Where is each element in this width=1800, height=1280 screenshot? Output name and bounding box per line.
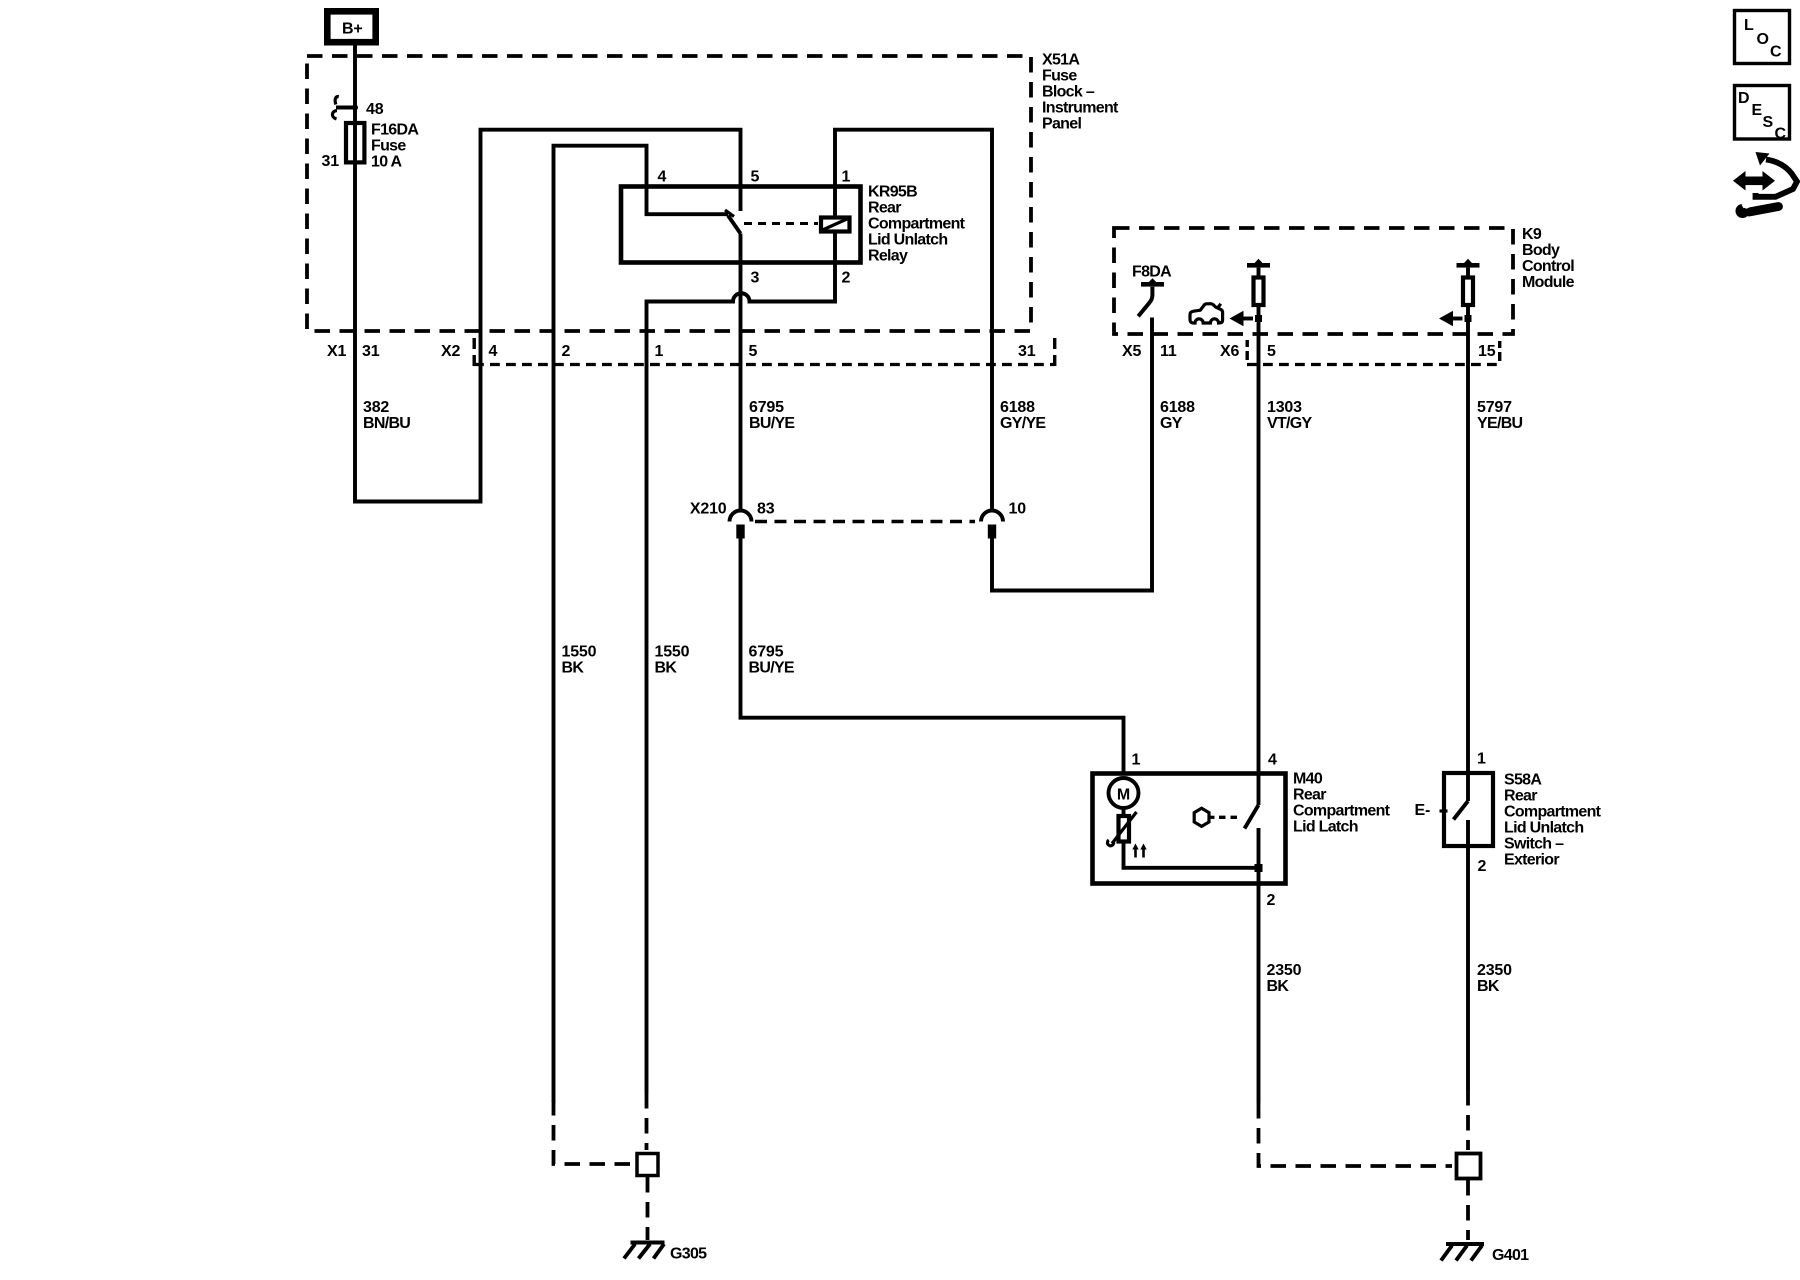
motor M [1109,778,1139,814]
svg-text:Lid Latch: Lid Latch [1293,819,1358,836]
svg-text:X5: X5 [1122,343,1141,360]
svg-text:Panel: Panel [1042,116,1081,133]
M40 pin labels [1132,752,1278,910]
svg-text:Block –: Block – [1042,84,1095,101]
dashed lead 1550 BK left to G305 [554,1100,637,1164]
svg-text:GY/YE: GY/YE [1000,415,1046,432]
ground symbol G401 [1441,1244,1529,1264]
svg-text:Lid Unlatch: Lid Unlatch [868,232,947,249]
svg-text:6795: 6795 [749,644,784,661]
svg-text:G305: G305 [670,1246,707,1263]
svg-text:M: M [1117,786,1130,803]
svg-text:Control: Control [1522,258,1574,275]
svg-text:1: 1 [1132,752,1141,769]
svg-text:B+: B+ [342,21,363,38]
car icon [1190,304,1223,323]
svg-text:2: 2 [1478,858,1487,875]
DESC box [1735,86,1790,143]
fuse block X51A box [307,56,1031,331]
svg-text:BU/YE: BU/YE [749,660,795,677]
relay KR95B [621,184,966,265]
S58A pin labels [1477,751,1487,876]
svg-text:1303: 1303 [1267,399,1302,416]
svg-text:X2: X2 [441,343,460,360]
wire label 5797 YE/BU [1477,399,1523,432]
svg-text:BK: BK [655,660,678,677]
BCM driver output left (X6/5) [1230,259,1271,326]
wire label 1550 BK left [562,644,597,677]
ground splice box G401 [1457,1154,1481,1179]
svg-text:C: C [1770,44,1782,61]
svg-text:1550: 1550 [562,644,597,661]
svg-text:X51A: X51A [1042,52,1080,69]
svg-text:E: E [1752,102,1763,119]
dashed lead below G401 box [1466,1180,1470,1240]
svg-text:S58A: S58A [1504,772,1542,789]
svg-text:Instrument: Instrument [1042,100,1119,117]
svg-text:Module: Module [1522,274,1575,291]
wire label 6188 GY/YE [1000,399,1046,432]
svg-text:Rear: Rear [1504,788,1537,805]
svg-text:M40: M40 [1293,771,1323,788]
svg-text:VT/GY: VT/GY [1267,415,1313,432]
svg-text:2350: 2350 [1267,962,1302,979]
LOC box [1735,11,1790,64]
svg-text:K9: K9 [1522,226,1542,243]
S58A switch blade [1454,801,1469,820]
svg-text:BK: BK [1477,978,1500,995]
X51A label [1042,52,1119,133]
svg-text:10: 10 [1009,501,1027,518]
wire label 1303 VT/GY [1267,399,1313,432]
svg-text:BN/BU: BN/BU [363,415,410,432]
wire relay pin1 to 6188 GY/YE [835,130,992,511]
wire power feed: B+ through fuse, X1/31, up riser, to relay pin 5 [355,45,741,502]
svg-text:Lid Unlatch: Lid Unlatch [1504,820,1583,837]
K9 label [1522,226,1575,291]
wire relay pin3 down to X210 [739,234,743,511]
dashed lead 2350 BK left to G401 [1259,1103,1453,1166]
wire 5797 YE/BU: X6/15 to S58A pin 1 [1466,307,1470,801]
dashed lead 1550 BK right to G305 [645,1093,649,1150]
connector X2 separator left [473,338,476,366]
svg-text:5: 5 [1267,343,1276,360]
svg-text:6188: 6188 [1000,399,1035,416]
svg-text:5: 5 [749,343,758,360]
M40 motor bottom wire to junction [1124,842,1256,868]
BCM X5 / X6 connector labels [1122,343,1496,360]
svg-text:YE/BU: YE/BU [1477,415,1523,432]
svg-text:GY: GY [1160,415,1183,432]
S58A switch box [1444,772,1602,869]
S58A pin 2 wire [1466,820,1470,1090]
relay pin labels [658,169,851,287]
svg-text:Body: Body [1522,242,1560,259]
junction M40 [1255,864,1263,872]
clip 48 [332,96,383,119]
M40 pin 2 wire [1257,828,1261,1103]
connector X210 [690,501,1026,539]
svg-text:4: 4 [658,169,667,186]
svg-text:S: S [1763,114,1774,131]
wire label 2350 BK left [1267,962,1302,995]
svg-text:5797: 5797 [1477,399,1512,416]
M40 rear compartment lid latch box [1093,771,1391,884]
wire 6795 to M40 pin 1 [741,539,1124,774]
connector X6 dotted line [1247,363,1500,366]
svg-text:5: 5 [751,169,760,186]
svg-text:Relay: Relay [868,248,908,265]
svg-text:Rear: Rear [868,200,901,217]
svg-text:2: 2 [1267,892,1276,909]
BCM driver output right (X6/15) [1439,259,1480,326]
ground symbol G305 [624,1243,707,1263]
connector X2 dotted line [474,363,1055,366]
svg-text:F16DA: F16DA [371,122,419,139]
svg-text:X1: X1 [327,343,346,360]
svg-text:X6: X6 [1220,343,1239,360]
svg-text:KR95B: KR95B [868,184,917,201]
svg-text:382: 382 [363,399,389,416]
svg-text:6795: 6795 [749,399,784,416]
svg-text:Fuse: Fuse [1042,68,1077,85]
wire label 6795 BU/YE lower [749,644,795,677]
connector X6 separator right [1498,341,1501,361]
svg-text:83: 83 [757,501,775,518]
svg-text:31: 31 [322,153,340,170]
svg-text:BK: BK [562,660,585,677]
svg-text:D: D [1738,90,1749,107]
BCM K9 dashed box [1114,228,1513,334]
M40 cam switch [1194,805,1258,829]
wire label 6188 GY [1160,399,1195,432]
svg-text:X210: X210 [690,501,727,518]
svg-text:11: 11 [1160,343,1177,360]
svg-text:2350: 2350 [1477,962,1512,979]
svg-text:1: 1 [655,343,664,360]
svg-text:L: L [1744,17,1754,34]
wire label 2350 BK right [1477,962,1512,995]
ground splice box G305 [637,1154,658,1176]
svg-text:3: 3 [751,270,760,287]
svg-text:48: 48 [366,101,384,118]
svg-text:31: 31 [362,343,380,360]
connector X6 separator left [1246,340,1249,360]
E- actuator [1415,802,1448,819]
svg-text:31: 31 [1018,343,1036,360]
dashed lead 2350 BK right to G401 [1466,1090,1470,1150]
svg-text:Switch –: Switch – [1504,836,1564,853]
svg-text:4: 4 [489,343,498,360]
wire label 382 BN/BU [363,399,410,432]
wire label 6795 BU/YE [749,399,795,432]
svg-text:C: C [1775,126,1787,143]
svg-text:O: O [1757,31,1769,48]
battery B+ [327,11,375,42]
wire relay pin2 left with hop to 1550 BK right [647,233,836,1093]
svg-text:10 A: 10 A [371,154,403,171]
wire 1303 VT/GY: X6/5 to M40 pin 4 [1257,307,1261,805]
fuse F16DA [322,122,420,171]
thermal protector [1107,812,1146,858]
wire 6188 to BCM X5/11 [992,318,1152,591]
svg-text:Compartment: Compartment [1504,804,1602,821]
svg-text:Fuse: Fuse [371,138,406,155]
svg-text:Compartment: Compartment [1293,803,1391,820]
svg-text:E-: E- [1415,802,1431,819]
svg-text:BU/YE: BU/YE [749,415,795,432]
svg-text:1: 1 [842,169,851,186]
svg-text:1: 1 [1477,751,1486,768]
svg-text:15: 15 [1478,343,1496,360]
svg-text:1550: 1550 [655,644,690,661]
reference icon: double arrow, bent arrow, wrench [1733,152,1797,218]
svg-text:2: 2 [842,270,851,287]
connector row X1/X2 labels [327,343,1036,360]
wire relay pin4 feed to 1550 BK left [554,146,647,1102]
fuse F8DA [1132,264,1172,317]
svg-text:4: 4 [1268,752,1277,769]
connector X2 separator right [1053,338,1056,366]
svg-text:Exterior: Exterior [1504,852,1559,869]
svg-text:Compartment: Compartment [868,216,966,233]
svg-text:BK: BK [1267,978,1290,995]
svg-text:G401: G401 [1492,1247,1529,1264]
svg-text:6188: 6188 [1160,399,1195,416]
svg-text:F8DA: F8DA [1132,264,1172,281]
wire label 1550 BK right [655,644,690,677]
svg-text:Rear: Rear [1293,787,1326,804]
svg-text:2: 2 [562,343,571,360]
dashed lead below G305 box [646,1177,650,1240]
